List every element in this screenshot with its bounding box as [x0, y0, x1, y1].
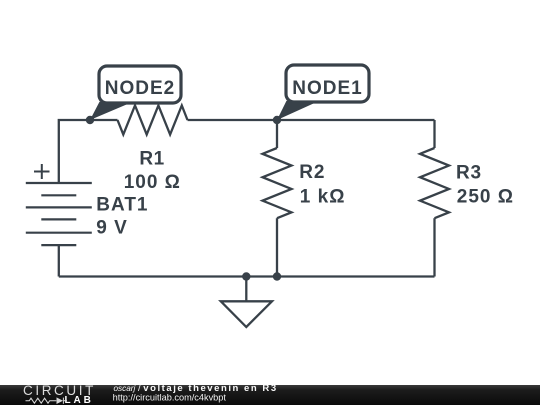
battery BAT1	[26, 183, 92, 245]
node NODE2 callout	[90, 66, 181, 120]
svg-text:R3: R3	[456, 162, 482, 183]
resistor R1	[118, 106, 188, 135]
logo squiggle	[26, 398, 68, 404]
wire top rail	[188, 119, 435, 121]
wire R3 top lead	[433, 120, 435, 148]
wire bottom rail	[59, 275, 435, 277]
junction dot R2 bottom	[273, 272, 281, 280]
svg-text:BAT1: BAT1	[96, 194, 148, 215]
svg-text:NODE2: NODE2	[105, 78, 175, 99]
wire R3 bottom lead	[433, 218, 435, 276]
wire R2 bottom lead	[276, 218, 278, 276]
svg-text:NODE1: NODE1	[292, 78, 362, 99]
svg-text:LAB: LAB	[65, 395, 94, 405]
wire battery bottom to rail	[58, 245, 60, 276]
battery plus sign	[34, 164, 50, 179]
svg-text:9 V: 9 V	[96, 218, 128, 239]
wire R2 top lead	[276, 120, 278, 148]
wire left top: battery top to R1	[59, 120, 118, 183]
resistor R3	[420, 148, 449, 218]
node NODE1 junction dot	[273, 116, 281, 124]
resistor R2	[263, 148, 292, 218]
junction dot ground	[242, 272, 250, 280]
node NODE2 junction dot	[86, 116, 94, 124]
svg-text:R1: R1	[139, 148, 164, 169]
svg-text:100 Ω: 100 Ω	[124, 172, 181, 193]
svg-text:R2: R2	[299, 162, 325, 183]
svg-text:http://circuitlab.com/c4kvbpt: http://circuitlab.com/c4kvbpt	[113, 393, 227, 403]
svg-text:1 kΩ: 1 kΩ	[300, 186, 346, 207]
ground	[245, 277, 247, 302]
node NODE1 callout	[277, 65, 369, 120]
svg-text:250 Ω: 250 Ω	[457, 186, 514, 207]
